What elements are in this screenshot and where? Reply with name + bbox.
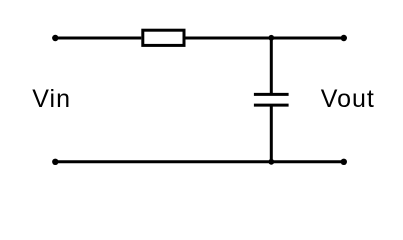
- wire top-right segment: [271, 37, 344, 40]
- wire top-middle segment: [186, 37, 272, 40]
- wire bottom-right segment: [271, 160, 344, 163]
- wire capacitor lower lead: [270, 105, 273, 162]
- node input bottom terminal: [52, 159, 58, 165]
- node junction bottom: [268, 159, 274, 165]
- node input top terminal: [52, 35, 58, 41]
- svg-text:Vout: Vout: [321, 85, 375, 113]
- node Vin label: [32, 85, 71, 113]
- wire bottom-left segment: [55, 160, 271, 163]
- svg-text:Vin: Vin: [32, 85, 71, 113]
- resistor R1: [143, 30, 184, 45]
- node junction top: [268, 35, 274, 41]
- capacitor C1: [254, 94, 289, 105]
- node Vout label: [321, 85, 375, 113]
- wire capacitor upper lead: [270, 38, 273, 94]
- node output top terminal: [341, 35, 347, 41]
- wire top-left segment: [55, 37, 141, 40]
- node output bottom terminal: [341, 159, 347, 165]
